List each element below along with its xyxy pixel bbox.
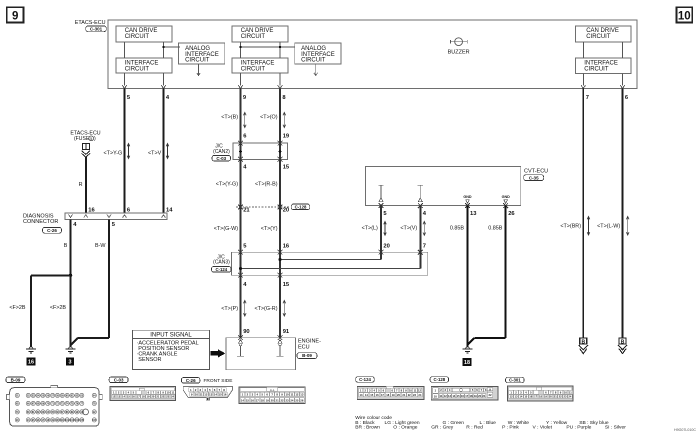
interface circuit block 2 bbox=[232, 58, 288, 73]
connector pinout C-128 bbox=[430, 377, 449, 383]
svg-text:H9G07L010C: H9G07L010C bbox=[674, 428, 696, 432]
analog interface circuit block 1 bbox=[179, 43, 225, 64]
wire V from CVT pin 4 to J/C CAN3 pin 7 bbox=[419, 206, 421, 253]
svg-text:18: 18 bbox=[464, 360, 470, 366]
svg-text:14: 14 bbox=[452, 394, 455, 398]
connector label C-26 bbox=[43, 227, 62, 233]
wire CAN-L B from ETACS pin 9 to J/C CAN2 pin 6 bbox=[240, 89, 242, 144]
svg-text:13: 13 bbox=[360, 393, 363, 397]
svg-text:23: 23 bbox=[413, 393, 416, 397]
svg-text:20: 20 bbox=[549, 395, 552, 399]
wire CAN drive 1 to interface 1 right bbox=[163, 42, 165, 58]
svg-text:15: 15 bbox=[219, 392, 223, 396]
svg-text:22: 22 bbox=[488, 393, 492, 397]
svg-text:105: 105 bbox=[80, 419, 85, 422]
svg-text:17: 17 bbox=[381, 393, 384, 397]
svg-text:20: 20 bbox=[283, 207, 289, 213]
svg-text:<T>(R-B): <T>(R-B) bbox=[255, 181, 278, 187]
svg-text:13: 13 bbox=[515, 395, 518, 399]
svg-text:12: 12 bbox=[418, 388, 421, 392]
wire analog interface 2 tap bbox=[241, 46, 296, 48]
svg-text:10: 10 bbox=[678, 10, 691, 22]
svg-text:15: 15 bbox=[524, 395, 527, 399]
svg-text:90: 90 bbox=[243, 329, 249, 335]
svg-text:16: 16 bbox=[251, 399, 255, 403]
connector pinout C-124 bbox=[356, 377, 375, 383]
svg-text:(FUSE: (FUSE bbox=[74, 136, 90, 142]
wire interface 2 outputs to pins 9 and 8 bbox=[240, 73, 242, 85]
page continuation chevrons under fuse bbox=[82, 151, 90, 155]
wire interface 3 outputs to pins 7 and 6 bbox=[582, 73, 584, 85]
svg-text:GND: GND bbox=[463, 195, 472, 199]
svg-text:C-128: C-128 bbox=[433, 377, 445, 382]
svg-text:SENSOR: SENSOR bbox=[138, 357, 161, 363]
internal jumper to CVT pin 7 bbox=[241, 268, 421, 270]
svg-text:INTERFACE: INTERFACE bbox=[241, 60, 275, 66]
svg-text:24: 24 bbox=[418, 393, 421, 397]
chevron mark diagnosis box bbox=[69, 215, 73, 218]
svg-text:13: 13 bbox=[300, 393, 304, 397]
svg-text:7: 7 bbox=[423, 243, 426, 249]
wire interface 1 outputs to pins 5 and 4 bbox=[124, 73, 126, 85]
ground 18 bbox=[466, 347, 470, 349]
wire BR from ETACS pin 7 to connector B bbox=[582, 89, 584, 338]
svg-text:INPUT SIGNAL: INPUT SIGNAL bbox=[150, 333, 192, 339]
svg-text:22: 22 bbox=[559, 395, 562, 399]
svg-text:C-301: C-301 bbox=[90, 26, 103, 31]
svg-text:19: 19 bbox=[266, 399, 270, 403]
wire G-W from C-128 to J/C CAN3 pin 5 bbox=[240, 207, 242, 253]
svg-text:18: 18 bbox=[261, 399, 265, 403]
wire 0.85B from CVT pin 13 to ground 18 bbox=[467, 206, 469, 347]
svg-text:15: 15 bbox=[370, 393, 373, 397]
CVT internal circuit symbol bbox=[378, 184, 383, 186]
svg-text:<T>(P): <T>(P) bbox=[221, 306, 238, 312]
wire through J/C CAN2 right bbox=[279, 143, 281, 159]
svg-text:SI : Silver: SI : Silver bbox=[605, 425, 626, 431]
twist arrow on P wire bbox=[244, 302, 246, 316]
wire CAN drive 2 to interface 2 right bbox=[279, 42, 281, 58]
svg-text:18: 18 bbox=[386, 393, 389, 397]
arrow under analog interface 1 bbox=[198, 64, 200, 74]
svg-text:BR : Brown: BR : Brown bbox=[355, 425, 380, 431]
svg-text:CIRCUIT: CIRCUIT bbox=[185, 58, 210, 64]
fuse symbol bbox=[82, 143, 89, 149]
svg-text:15: 15 bbox=[457, 394, 460, 398]
svg-text:16: 16 bbox=[529, 395, 532, 399]
svg-text:C-26: C-26 bbox=[186, 378, 196, 383]
svg-text:21: 21 bbox=[276, 399, 280, 403]
svg-text:24: 24 bbox=[171, 395, 174, 399]
svg-text:106: 106 bbox=[92, 419, 97, 422]
svg-text:<T>(Y-G): <T>(Y-G) bbox=[216, 181, 238, 187]
svg-text:C-26: C-26 bbox=[47, 228, 57, 233]
wire CAN drive 2 to interface 2 left bbox=[240, 42, 242, 58]
svg-text:14: 14 bbox=[365, 393, 368, 397]
svg-text:INTERFACE: INTERFACE bbox=[584, 60, 618, 66]
svg-text:21: 21 bbox=[482, 394, 485, 398]
svg-text:FRONT SIDE: FRONT SIDE bbox=[204, 378, 233, 384]
chevron mark diagnosis box bbox=[84, 215, 88, 218]
svg-text:GND: GND bbox=[502, 195, 511, 199]
interface circuit block 1 bbox=[116, 58, 172, 73]
svg-text:91: 91 bbox=[283, 329, 290, 335]
svg-text:10: 10 bbox=[167, 391, 170, 395]
svg-text:B-W: B-W bbox=[95, 243, 106, 249]
svg-text:14: 14 bbox=[166, 207, 173, 213]
branch wire to ground 16 bbox=[31, 274, 71, 276]
svg-text:16: 16 bbox=[28, 359, 34, 365]
svg-text:21: 21 bbox=[243, 207, 250, 213]
svg-text:<T>(G-W): <T>(G-W) bbox=[214, 226, 238, 232]
twist arrow on BR wire bbox=[588, 218, 590, 235]
svg-text:13: 13 bbox=[117, 395, 120, 399]
svg-text:CIRCUIT: CIRCUIT bbox=[241, 67, 266, 73]
page number 9 box bbox=[7, 7, 24, 22]
input signal note box bbox=[133, 330, 210, 369]
svg-text:26: 26 bbox=[300, 399, 304, 403]
intermediate connector C-128 dashed boundary bbox=[236, 206, 291, 208]
page number 10 box bbox=[677, 7, 693, 22]
svg-text:16: 16 bbox=[88, 207, 95, 213]
svg-text:12: 12 bbox=[444, 394, 447, 398]
internal jumper to CVT pin 20 bbox=[280, 259, 381, 261]
svg-text:24: 24 bbox=[290, 399, 294, 403]
svg-text:19: 19 bbox=[392, 393, 395, 397]
diagnosis connector box bbox=[65, 213, 167, 219]
wire Y from C-128 to J/C CAN3 pin 16 bbox=[279, 207, 281, 253]
wire 0.85B from CVT pin 26 to ground 18 bbox=[505, 206, 507, 338]
svg-text:11: 11 bbox=[200, 392, 203, 396]
svg-text:23: 23 bbox=[166, 395, 169, 399]
svg-text:13: 13 bbox=[470, 211, 477, 217]
svg-text:C-128: C-128 bbox=[295, 204, 307, 209]
svg-text:INTERFACE: INTERFACE bbox=[125, 60, 159, 66]
twist arrow on V wire bbox=[423, 223, 425, 235]
svg-text:10: 10 bbox=[285, 393, 289, 397]
twist arrow on O wire bbox=[283, 114, 285, 127]
svg-text:GR : Grey: GR : Grey bbox=[431, 425, 454, 431]
svg-text:0.85B: 0.85B bbox=[488, 225, 502, 231]
svg-text:C-03: C-03 bbox=[216, 156, 226, 161]
svg-text:21: 21 bbox=[156, 395, 159, 399]
svg-text:21: 21 bbox=[554, 395, 557, 399]
svg-text:9: 9 bbox=[12, 10, 18, 22]
analog interface circuit block 2 bbox=[295, 43, 341, 64]
svg-text:21: 21 bbox=[402, 393, 405, 397]
interface circuit block 3 bbox=[576, 58, 632, 73]
connector pinout B-09 bbox=[6, 377, 25, 383]
svg-text:C-03: C-03 bbox=[114, 377, 124, 382]
svg-text:<T>(B): <T>(B) bbox=[221, 115, 238, 121]
svg-text:17: 17 bbox=[256, 399, 260, 403]
arrow under analog interface 2 bbox=[315, 64, 317, 74]
CAN drive circuit block 3 bbox=[576, 26, 632, 42]
svg-text:V : Violet: V : Violet bbox=[533, 425, 553, 431]
svg-text:P : Pink: P : Pink bbox=[502, 425, 519, 431]
svg-text:11: 11 bbox=[290, 393, 293, 397]
svg-text:11: 11 bbox=[569, 391, 572, 395]
svg-text:<T>(L): <T>(L) bbox=[362, 225, 378, 231]
svg-text:<T>(V): <T>(V) bbox=[400, 225, 417, 231]
svg-text:C-124: C-124 bbox=[215, 267, 227, 272]
svg-text:<T>Y-G: <T>Y-G bbox=[104, 150, 123, 156]
svg-text:23: 23 bbox=[564, 395, 567, 399]
svg-text:12: 12 bbox=[112, 395, 115, 399]
arrow input signal to engine ECU bbox=[211, 349, 226, 357]
CVT internal circuit symbol bbox=[418, 184, 423, 186]
svg-text:26: 26 bbox=[508, 211, 515, 217]
svg-text:B: B bbox=[64, 243, 68, 249]
svg-text:<F>2B: <F>2B bbox=[50, 305, 67, 311]
svg-text:CAN DRIVE: CAN DRIVE bbox=[241, 28, 274, 34]
svg-text:19: 19 bbox=[283, 134, 290, 140]
CVT-ECU block C-35 bbox=[366, 166, 521, 205]
svg-text:20: 20 bbox=[383, 243, 389, 249]
svg-text:18: 18 bbox=[470, 394, 473, 398]
wire P from J/C CAN3 pin 4 to engine ECU pin 90 bbox=[240, 275, 242, 338]
svg-text:14: 14 bbox=[241, 399, 245, 403]
wire analog interface 1 tap bbox=[164, 46, 181, 48]
svg-text:14: 14 bbox=[214, 392, 218, 396]
wire through J/C CAN3 right bbox=[279, 252, 281, 275]
joint connector J/C(CAN2) C-03 bbox=[233, 143, 288, 159]
svg-text:ECU: ECU bbox=[298, 344, 310, 350]
svg-text:10: 10 bbox=[434, 394, 438, 398]
joint connector J/C(CAN3) C-124 bbox=[232, 252, 428, 275]
svg-text:15: 15 bbox=[283, 164, 290, 170]
ETACS-ECU block C-301 outline bbox=[108, 20, 637, 89]
svg-text:16: 16 bbox=[376, 393, 379, 397]
svg-text:R: R bbox=[79, 182, 83, 188]
svg-text:): ) bbox=[94, 136, 96, 142]
svg-text:15: 15 bbox=[283, 282, 290, 288]
svg-text:CIRCUIT: CIRCUIT bbox=[125, 67, 150, 73]
svg-text:15: 15 bbox=[127, 395, 130, 399]
CAN drive circuit block 2 bbox=[232, 26, 288, 42]
svg-text:C-35: C-35 bbox=[529, 175, 539, 180]
connector pinout C-26 front side bbox=[181, 378, 200, 384]
svg-text:CIRCUIT: CIRCUIT bbox=[586, 34, 611, 40]
svg-text:CIRCUIT: CIRCUIT bbox=[584, 67, 609, 73]
svg-text:O : Orange: O : Orange bbox=[393, 425, 417, 431]
svg-text:B-09: B-09 bbox=[302, 353, 312, 358]
svg-text:11: 11 bbox=[172, 391, 175, 395]
svg-text:18: 18 bbox=[539, 395, 542, 399]
svg-text:<T>(BR): <T>(BR) bbox=[560, 223, 581, 229]
connector pinout C-35 bbox=[239, 387, 305, 404]
twist arrow on Y-G wire bbox=[128, 145, 130, 158]
svg-text:0.85B: 0.85B bbox=[450, 225, 464, 231]
twist arrow on B wire bbox=[244, 114, 246, 127]
svg-text:15: 15 bbox=[246, 399, 250, 403]
svg-text:PU : Purple: PU : Purple bbox=[566, 425, 591, 431]
svg-text:20: 20 bbox=[271, 399, 275, 403]
svg-text:11: 11 bbox=[440, 394, 443, 398]
wire through J/C CAN2 left bbox=[240, 143, 242, 159]
svg-text:12: 12 bbox=[204, 392, 208, 396]
wire L from CVT pin 5 to J/C CAN3 pin 20 bbox=[380, 206, 382, 253]
svg-text:13: 13 bbox=[209, 392, 213, 396]
svg-text:10: 10 bbox=[409, 388, 412, 392]
svg-text:<T>(O): <T>(O) bbox=[260, 115, 278, 121]
svg-text:22: 22 bbox=[280, 399, 284, 403]
twist arrow on L-W wire bbox=[627, 218, 629, 235]
svg-text:<T>(L-W): <T>(L-W) bbox=[597, 223, 620, 229]
engine ECU internal termination bbox=[239, 340, 243, 344]
svg-text:17: 17 bbox=[137, 395, 140, 399]
svg-text:16: 16 bbox=[283, 243, 290, 249]
twist arrow on L wire bbox=[384, 223, 386, 235]
svg-text:22: 22 bbox=[408, 393, 411, 397]
svg-text:CONNECTOR: CONNECTOR bbox=[23, 219, 58, 225]
page connector symbol B bbox=[580, 338, 587, 344]
svg-text:CIRCUIT: CIRCUIT bbox=[125, 34, 150, 40]
wire Y-G from ETACS pin 5 to diagnosis connector pin 6 bbox=[124, 89, 126, 214]
svg-text:BUZZER: BUZZER bbox=[448, 49, 470, 55]
svg-text:(CAN3): (CAN3) bbox=[213, 260, 230, 266]
svg-text:16: 16 bbox=[132, 395, 135, 399]
svg-text:<T>V: <T>V bbox=[148, 150, 162, 156]
svg-text:C-124: C-124 bbox=[359, 377, 371, 382]
svg-text:<F>2B: <F>2B bbox=[9, 305, 26, 311]
wire B-W from diagnosis pin 5 bbox=[108, 219, 110, 337]
svg-text:C-301: C-301 bbox=[509, 378, 521, 383]
svg-text:CAN DRIVE: CAN DRIVE bbox=[125, 28, 158, 34]
svg-text:CIRCUIT: CIRCUIT bbox=[301, 58, 326, 64]
svg-text:12: 12 bbox=[510, 395, 513, 399]
svg-text:B: B bbox=[621, 340, 625, 346]
svg-text:<T>(G-R): <T>(G-R) bbox=[254, 306, 277, 312]
svg-text:10: 10 bbox=[195, 392, 199, 396]
svg-text:16: 16 bbox=[461, 394, 464, 398]
chevron mark diagnosis box bbox=[107, 215, 111, 218]
svg-text:3: 3 bbox=[69, 359, 72, 365]
wire R-B from J/C CAN2 pin 15 to C-128 pin 20 bbox=[279, 159, 281, 207]
svg-text:10: 10 bbox=[564, 391, 567, 395]
svg-text:5: 5 bbox=[90, 137, 92, 141]
svg-text:B: B bbox=[581, 340, 585, 346]
chevron mark diagnosis box bbox=[162, 215, 166, 218]
svg-text:19: 19 bbox=[544, 395, 547, 399]
svg-text:24: 24 bbox=[568, 395, 571, 399]
page connector symbol B bbox=[619, 338, 626, 344]
svg-text:CAN DRIVE: CAN DRIVE bbox=[586, 28, 619, 34]
svg-text:17: 17 bbox=[534, 395, 537, 399]
svg-text:A-L: A-L bbox=[270, 388, 275, 392]
chevron mark diagnosis box bbox=[123, 215, 127, 218]
connector label C-301 bbox=[86, 26, 107, 32]
wire L-W from ETACS pin 6 to connector B bbox=[622, 89, 624, 338]
junction on wire B bbox=[69, 274, 73, 278]
wire CAN drive 3 to interface 3 bbox=[582, 42, 584, 58]
svg-text:23: 23 bbox=[285, 399, 289, 403]
ground 16 bbox=[29, 347, 33, 349]
svg-text:13: 13 bbox=[448, 394, 451, 398]
svg-text:20: 20 bbox=[478, 394, 481, 398]
wire B from diagnosis pin 4 to grounds bbox=[70, 219, 72, 347]
svg-text:B-09: B-09 bbox=[11, 377, 21, 382]
svg-text:ETACS-ECU: ETACS-ECU bbox=[75, 20, 106, 26]
wire Y-G from J/C CAN2 pin 4 to C-128 pin 21 bbox=[240, 159, 242, 207]
twist arrow on G-R wire bbox=[283, 302, 285, 316]
svg-text:14: 14 bbox=[122, 395, 125, 399]
svg-text:19: 19 bbox=[474, 394, 477, 398]
svg-text:18: 18 bbox=[142, 395, 145, 399]
connector pinout C-301 bbox=[506, 377, 525, 383]
wire CAN-H O from ETACS pin 8 to J/C CAN2 pin 19 bbox=[279, 89, 281, 144]
wire R from fuse to diagnosis connector pin 16 bbox=[85, 157, 87, 213]
engine ECU internal termination bbox=[278, 340, 282, 344]
svg-text:17: 17 bbox=[465, 394, 468, 398]
svg-text:16: 16 bbox=[223, 392, 227, 396]
wire through J/C CAN3 left bbox=[240, 252, 242, 275]
wire V from ETACS pin 4 to diagnosis connector pin 14 bbox=[163, 89, 165, 214]
svg-text:22: 22 bbox=[161, 395, 164, 399]
svg-text:<T>(Y): <T>(Y) bbox=[261, 226, 278, 232]
highlight pin circle B-09 bbox=[83, 409, 89, 415]
svg-text:20: 20 bbox=[151, 395, 154, 399]
connector pinout C-03 bbox=[109, 377, 128, 383]
engine ECU block B-09 bbox=[226, 338, 296, 370]
ground 3 bbox=[69, 347, 73, 349]
svg-text:CVT-ECU: CVT-ECU bbox=[524, 168, 548, 174]
twist arrow on V wire bbox=[167, 145, 169, 158]
svg-text:19: 19 bbox=[147, 395, 150, 399]
svg-text:7: 7 bbox=[586, 95, 589, 101]
svg-text:(CAN2): (CAN2) bbox=[213, 149, 230, 155]
svg-text:25: 25 bbox=[295, 399, 299, 403]
svg-text:CIRCUIT: CIRCUIT bbox=[241, 34, 266, 40]
connector label C-128 bbox=[291, 204, 310, 210]
svg-text:14: 14 bbox=[519, 395, 522, 399]
wire G-R from J/C CAN3 pin 15 to engine ECU pin 91 bbox=[279, 275, 281, 338]
CAN drive circuit block 1 bbox=[116, 26, 172, 42]
svg-text:12: 12 bbox=[295, 393, 299, 397]
svg-text:20: 20 bbox=[397, 393, 400, 397]
buzzer bbox=[449, 40, 451, 44]
wire CAN drive 1 to interface 1 left bbox=[124, 42, 126, 58]
svg-text:R : Red: R : Red bbox=[466, 425, 483, 431]
